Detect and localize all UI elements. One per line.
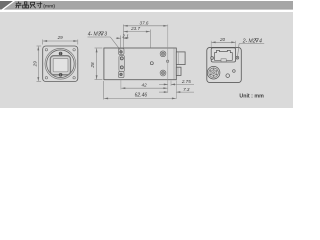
rj45 ear screw right — [236, 56, 239, 59]
dim 29 top: extension lines — [42, 40, 44, 45]
svg-text:29: 29 — [57, 35, 64, 40]
dim 42: line — [121, 87, 167, 89]
label 4-M3: underline — [88, 36, 111, 38]
rj45 housing — [211, 48, 235, 62]
svg-text:37.6: 37.6 — [140, 21, 149, 26]
svg-text:20: 20 — [219, 37, 226, 42]
side middle screw lower — [120, 66, 123, 69]
dim 7.3: ext line — [175, 81, 177, 99]
dim 2.75: ext line — [170, 81, 172, 86]
svg-text:28: 28 — [90, 62, 95, 69]
side left screw pad bottom — [118, 72, 124, 78]
back view body square — [207, 47, 242, 82]
side right screw top washer — [160, 51, 166, 57]
dim 2.1: line right tail — [123, 37, 128, 39]
svg-text:42: 42 — [142, 83, 148, 88]
power pin 6 — [210, 70, 211, 71]
dim 23.7: ext right — [149, 30, 151, 48]
side right screw bottom washer — [160, 70, 166, 76]
side rear lower block — [176, 67, 181, 75]
bottom set screw — [59, 73, 63, 77]
side screw bottom-left — [120, 73, 123, 76]
dim 2.75: right tail — [171, 83, 194, 85]
dim 62.46: line — [104, 97, 176, 99]
svg-text:62.46: 62.46 — [135, 93, 148, 99]
lens mount inner circle — [47, 50, 75, 78]
side middle screw upper — [120, 57, 123, 60]
rj45 inner tab — [221, 59, 226, 62]
label 2-M2: leader — [238, 44, 240, 57]
power pin 5 — [210, 74, 211, 75]
side right screw bottom — [161, 71, 164, 74]
front corner hole top-right — [73, 49, 75, 51]
svg-text:4- M3: 4- M3 — [88, 32, 101, 38]
m2 hole right — [233, 70, 236, 73]
label 4-M3: leader — [110, 37, 120, 50]
side screw top-left — [120, 51, 123, 54]
side back plate seam — [173, 48, 175, 79]
dim 20: ext right — [235, 41, 237, 47]
dim 7.3: left tail — [159, 91, 168, 93]
dim 37.6: ext left — [122, 25, 124, 48]
svg-text:2.1: 2.1 — [121, 34, 129, 39]
header title 寸 — [37, 2, 43, 8]
rj45 jack outline — [215, 50, 233, 60]
power pin 1 — [213, 69, 214, 70]
dim 2.1: ext left — [120, 36, 122, 48]
power pin 4 — [213, 76, 214, 77]
rj45 block lip — [177, 52, 179, 64]
header flag icon — [0, 1, 13, 10]
side view body — [104, 48, 176, 80]
dim 29 left: dimension line — [37, 46, 39, 81]
lower block lip — [177, 68, 179, 76]
side center hole — [150, 62, 153, 65]
led hole — [226, 74, 230, 78]
power connector inner ring — [211, 70, 216, 75]
svg-text:2.75: 2.75 — [181, 79, 191, 84]
svg-text:3: 3 — [104, 32, 107, 38]
dim 28: ext top — [95, 47, 103, 49]
bottom set screw slot — [60, 74, 62, 77]
power pin 3 — [216, 74, 217, 75]
dim 28: line — [96, 48, 98, 79]
top set screw — [59, 52, 63, 56]
power connector center pin — [213, 72, 215, 74]
side rear connector block — [176, 52, 185, 65]
dim 62.46: ext left — [103, 81, 105, 100]
header title 产 — [15, 2, 21, 9]
svg-text:29: 29 — [32, 61, 37, 68]
side small hole right — [166, 60, 168, 62]
body panel background — [0, 12, 293, 108]
dim 20: line — [212, 41, 236, 43]
side right screw top slot — [161, 52, 164, 55]
dim 37.6: line — [124, 25, 168, 27]
top set screw slot — [60, 52, 62, 55]
front view body square — [43, 46, 78, 82]
dim 28: ext bottom — [95, 79, 103, 81]
dim 2.75: left tail — [159, 83, 168, 85]
dim 20: ext left — [210, 41, 212, 47]
side right screw bottom slot — [161, 71, 164, 74]
svg-text:Unit : mm: Unit : mm — [239, 94, 264, 100]
dim 29 top: dimension line — [43, 40, 77, 42]
header bar — [0, 1, 293, 10]
header title 品 — [23, 2, 29, 8]
side middle plate — [119, 55, 125, 71]
front corner hole bottom-right — [73, 77, 75, 79]
sensor rectangle — [53, 58, 68, 71]
image plane ext line — [167, 25, 169, 93]
front corner hole bottom-left — [45, 77, 47, 79]
page background — [0, 0, 300, 110]
power pin 2 — [216, 70, 217, 71]
dim 7.3: right tail — [176, 91, 194, 93]
svg-text:23.7: 23.7 — [130, 26, 140, 31]
dim 29 left: extension lines — [37, 45, 42, 47]
dim 23.7: line — [124, 31, 150, 33]
header title 尺 — [30, 2, 35, 8]
front corner hole top-left — [45, 49, 47, 51]
dim 2.1: line left tail — [116, 37, 121, 39]
side right screw top — [161, 52, 164, 55]
lens mount outer circle — [45, 48, 76, 79]
rj45 ear screw left — [211, 57, 214, 60]
svg-text:7.3: 7.3 — [183, 87, 190, 92]
svg-text:(mm): (mm) — [43, 4, 55, 10]
dim 42: ext left — [120, 79, 122, 90]
power connector outer — [207, 66, 220, 79]
side left screw pad top — [118, 48, 124, 54]
power connector ring — [209, 68, 219, 78]
label 2-M2: underline — [239, 43, 264, 45]
sensor cavity rounded square — [50, 56, 70, 75]
